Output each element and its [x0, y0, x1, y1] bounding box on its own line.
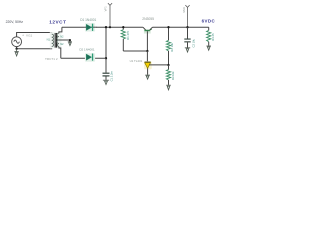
wire output rail [153, 26, 209, 28]
node center tap [69, 39, 71, 41]
primary coil N1 [52, 34, 54, 46]
wire D2 bottom [61, 57, 106, 59]
transformer TRCT1 [47, 32, 64, 48]
diode D2 [86, 54, 93, 61]
node rail-R2 [167, 26, 169, 28]
secondary coil N2 upper [57, 33, 59, 40]
wire center tap [59, 40, 70, 42]
wire secondary top lead [59, 27, 62, 33]
capacitor C2 [184, 27, 190, 47]
wire base node [123, 50, 147, 52]
wire TL431 ref [149, 64, 168, 66]
ground TL431 [145, 75, 150, 79]
node rail-C2 [186, 26, 188, 28]
resistor R1 [121, 27, 125, 51]
wire primary top [17, 33, 52, 37]
svg-text:C2 10u: C2 10u [191, 38, 195, 47]
svg-text:12VCT: 12VCT [49, 19, 66, 24]
svg-text:N1: N1 [47, 37, 51, 41]
voltage pin VF1 arrow [108, 3, 112, 27]
wire secondary bottom lead [59, 47, 61, 59]
svg-text:R3 10k: R3 10k [171, 71, 175, 80]
svg-text:TRCT1 2: TRCT1 2 [45, 57, 58, 61]
svg-text:220V, 50Hz: 220V, 50Hz [6, 20, 24, 24]
transistor Q1 glow [144, 30, 151, 34]
svg-text:R2 10k: R2 10k [170, 42, 174, 51]
svg-text:R4 25: R4 25 [211, 33, 215, 41]
svg-text:C1 2.2m: C1 2.2m [110, 70, 114, 81]
node rail-R1 [122, 26, 124, 28]
resistor R2 [166, 27, 170, 65]
wire C1 branch vertical [105, 27, 107, 72]
shunt regulator U1 TL431 [144, 61, 152, 75]
transistor Q1 2N3055 [143, 27, 153, 51]
wire top rail left [62, 26, 86, 28]
voltage source VG1 [12, 37, 22, 47]
diode D1 [85, 24, 97, 31]
node D2-C1 [105, 57, 107, 59]
ground under VG1 [14, 49, 18, 56]
svg-text:D2 1N4001: D2 1N4001 [79, 47, 95, 51]
svg-text:+: + [22, 34, 24, 38]
transformer glow [50, 32, 62, 48]
capacitor C1 [103, 73, 110, 80]
wire top rail middle [96, 26, 143, 28]
secondary coil N2 lower [57, 40, 59, 47]
diode D2 glow [85, 53, 95, 62]
ground R4 [206, 46, 211, 50]
voltage pin VM1 arrow [185, 5, 189, 27]
node ref junction [167, 64, 169, 66]
node rail-C1 [105, 26, 107, 28]
svg-text:VM1: VM1 [182, 7, 186, 13]
wire primary bottom [17, 46, 52, 48]
node rail-VF1 [109, 26, 111, 28]
resistor R3 [166, 65, 170, 85]
diode D1 glow [85, 23, 95, 32]
ground center tap [68, 42, 72, 46]
transformer core [55, 33, 56, 48]
svg-text:2N3055: 2N3055 [142, 17, 154, 21]
wire TL431 cathode [146, 51, 148, 62]
svg-text:R1 470: R1 470 [126, 30, 130, 39]
svg-text:U1 TL431: U1 TL431 [130, 59, 143, 63]
node primary-ground junction [15, 48, 17, 50]
svg-text:VG1: VG1 [26, 34, 32, 38]
svg-text:N2: N2 [60, 42, 64, 46]
svg-text:N2: N2 [60, 34, 64, 38]
svg-text:VF1: VF1 [104, 6, 108, 12]
svg-text:D1 1N4001: D1 1N4001 [80, 18, 96, 22]
ground C1 [103, 80, 109, 84]
node base junction [146, 50, 148, 52]
ground R3 [166, 85, 171, 90]
resistor R4 [207, 27, 211, 46]
svg-text:6VDC: 6VDC [202, 18, 216, 23]
ground C2 [185, 48, 190, 52]
